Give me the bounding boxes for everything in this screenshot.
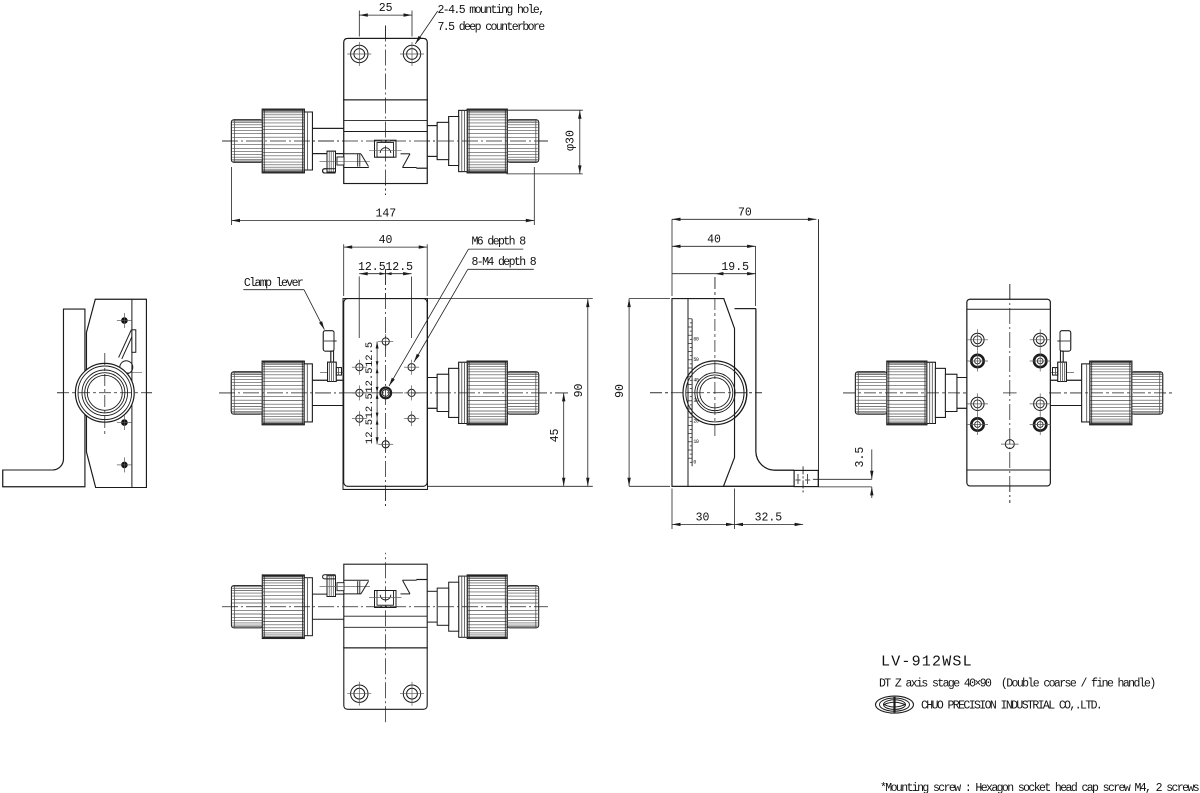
svg-text:8-M4 depth 8: 8-M4 depth 8	[472, 256, 537, 269]
svg-text:12.5: 12.5	[364, 393, 376, 418]
svg-text:45: 45	[549, 429, 562, 443]
svg-text:*Mounting screw : Hexagon sock: *Mounting screw : Hexagon socket head ca…	[880, 782, 1199, 793]
svg-text:12.5: 12.5	[385, 261, 413, 274]
svg-text:70: 70	[738, 207, 752, 220]
svg-text:12.5: 12.5	[364, 367, 376, 392]
svg-text:3.5: 3.5	[854, 447, 867, 468]
svg-text:30: 30	[696, 512, 710, 525]
svg-text:7.5 deep counterbore: 7.5 deep counterbore	[438, 21, 546, 34]
svg-text:LV-912WSL: LV-912WSL	[881, 654, 973, 671]
svg-text:Clamp lever: Clamp lever	[244, 277, 303, 290]
svg-text:40: 40	[379, 234, 393, 247]
svg-text:CHUO PRECISION INDUSTRIAL CO,.: CHUO PRECISION INDUSTRIAL CO,.LTD.	[921, 700, 1101, 713]
svg-text:40: 40	[707, 234, 721, 247]
svg-text:19.5: 19.5	[721, 261, 749, 274]
svg-text:φ30: φ30	[564, 130, 577, 151]
svg-text:90: 90	[614, 384, 627, 398]
svg-text:12.5: 12.5	[358, 261, 386, 274]
svg-text:12.5: 12.5	[364, 342, 376, 367]
svg-text:147: 147	[375, 208, 396, 221]
svg-text:25: 25	[379, 2, 393, 15]
svg-text:M6 depth 8: M6 depth 8	[472, 236, 527, 249]
svg-text:32.5: 32.5	[755, 512, 783, 525]
svg-text:2-4.5 mounting hole,: 2-4.5 mounting hole,	[438, 4, 544, 17]
svg-text:12.5: 12.5	[364, 419, 376, 444]
svg-text:DT Z axis stage 40×90 (Double: DT Z axis stage 40×90 (Double coarse / f…	[879, 678, 1155, 691]
svg-text:90: 90	[573, 384, 586, 398]
